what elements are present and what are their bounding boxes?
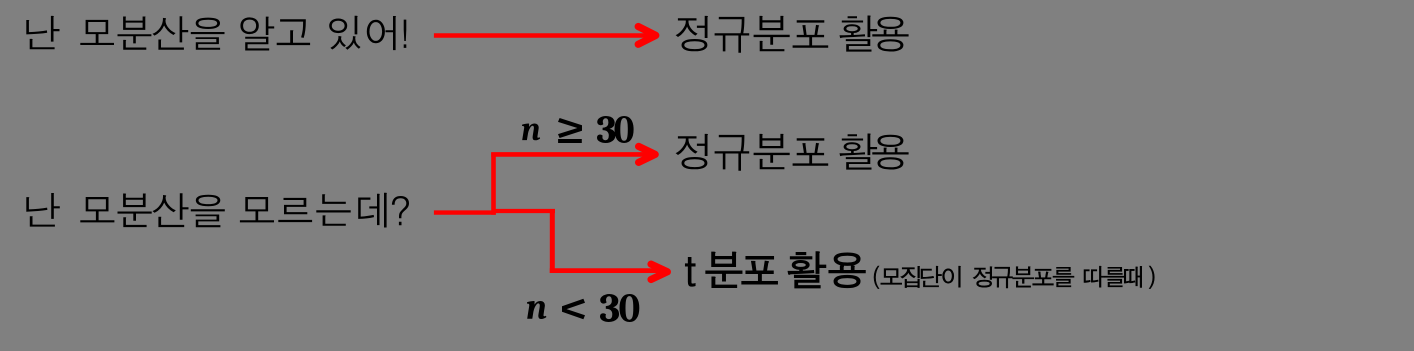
text: t분포 활용 [686,252,866,288]
label: 30 (lower branch) [600,294,639,322]
wire: upper branch horizontal [491,152,650,157]
label: n (lower branch) [527,301,546,319]
text: (모집단이 정규분포를 따를때) [874,266,1154,289]
text: 정규분포 활용 (top) [676,16,909,53]
wire: lower branch horizontal stub [494,209,556,213]
text: 난 모분산을 알고 있어! [26,16,406,51]
arrowhead: top arrow [638,27,656,45]
label: n (upper branch) [522,124,540,141]
arrowhead: upper branch [639,146,656,162]
label: < (lower branch) [562,299,585,320]
wire: lower branch horizontal [550,268,662,273]
wire: upper branch vertical [491,153,496,215]
wire: top arrow shaft [434,33,650,38]
arrowhead: lower branch [651,264,667,279]
label: 30 (upper branch) [597,116,634,143]
wire: stem from second question [434,210,496,214]
wire: lower branch vertical [550,209,555,273]
label: >= (upper branch) [558,118,582,143]
text: 난 모분산을 모르는데? [26,193,409,228]
text: 정규분포 활용 (middle) [676,134,909,171]
